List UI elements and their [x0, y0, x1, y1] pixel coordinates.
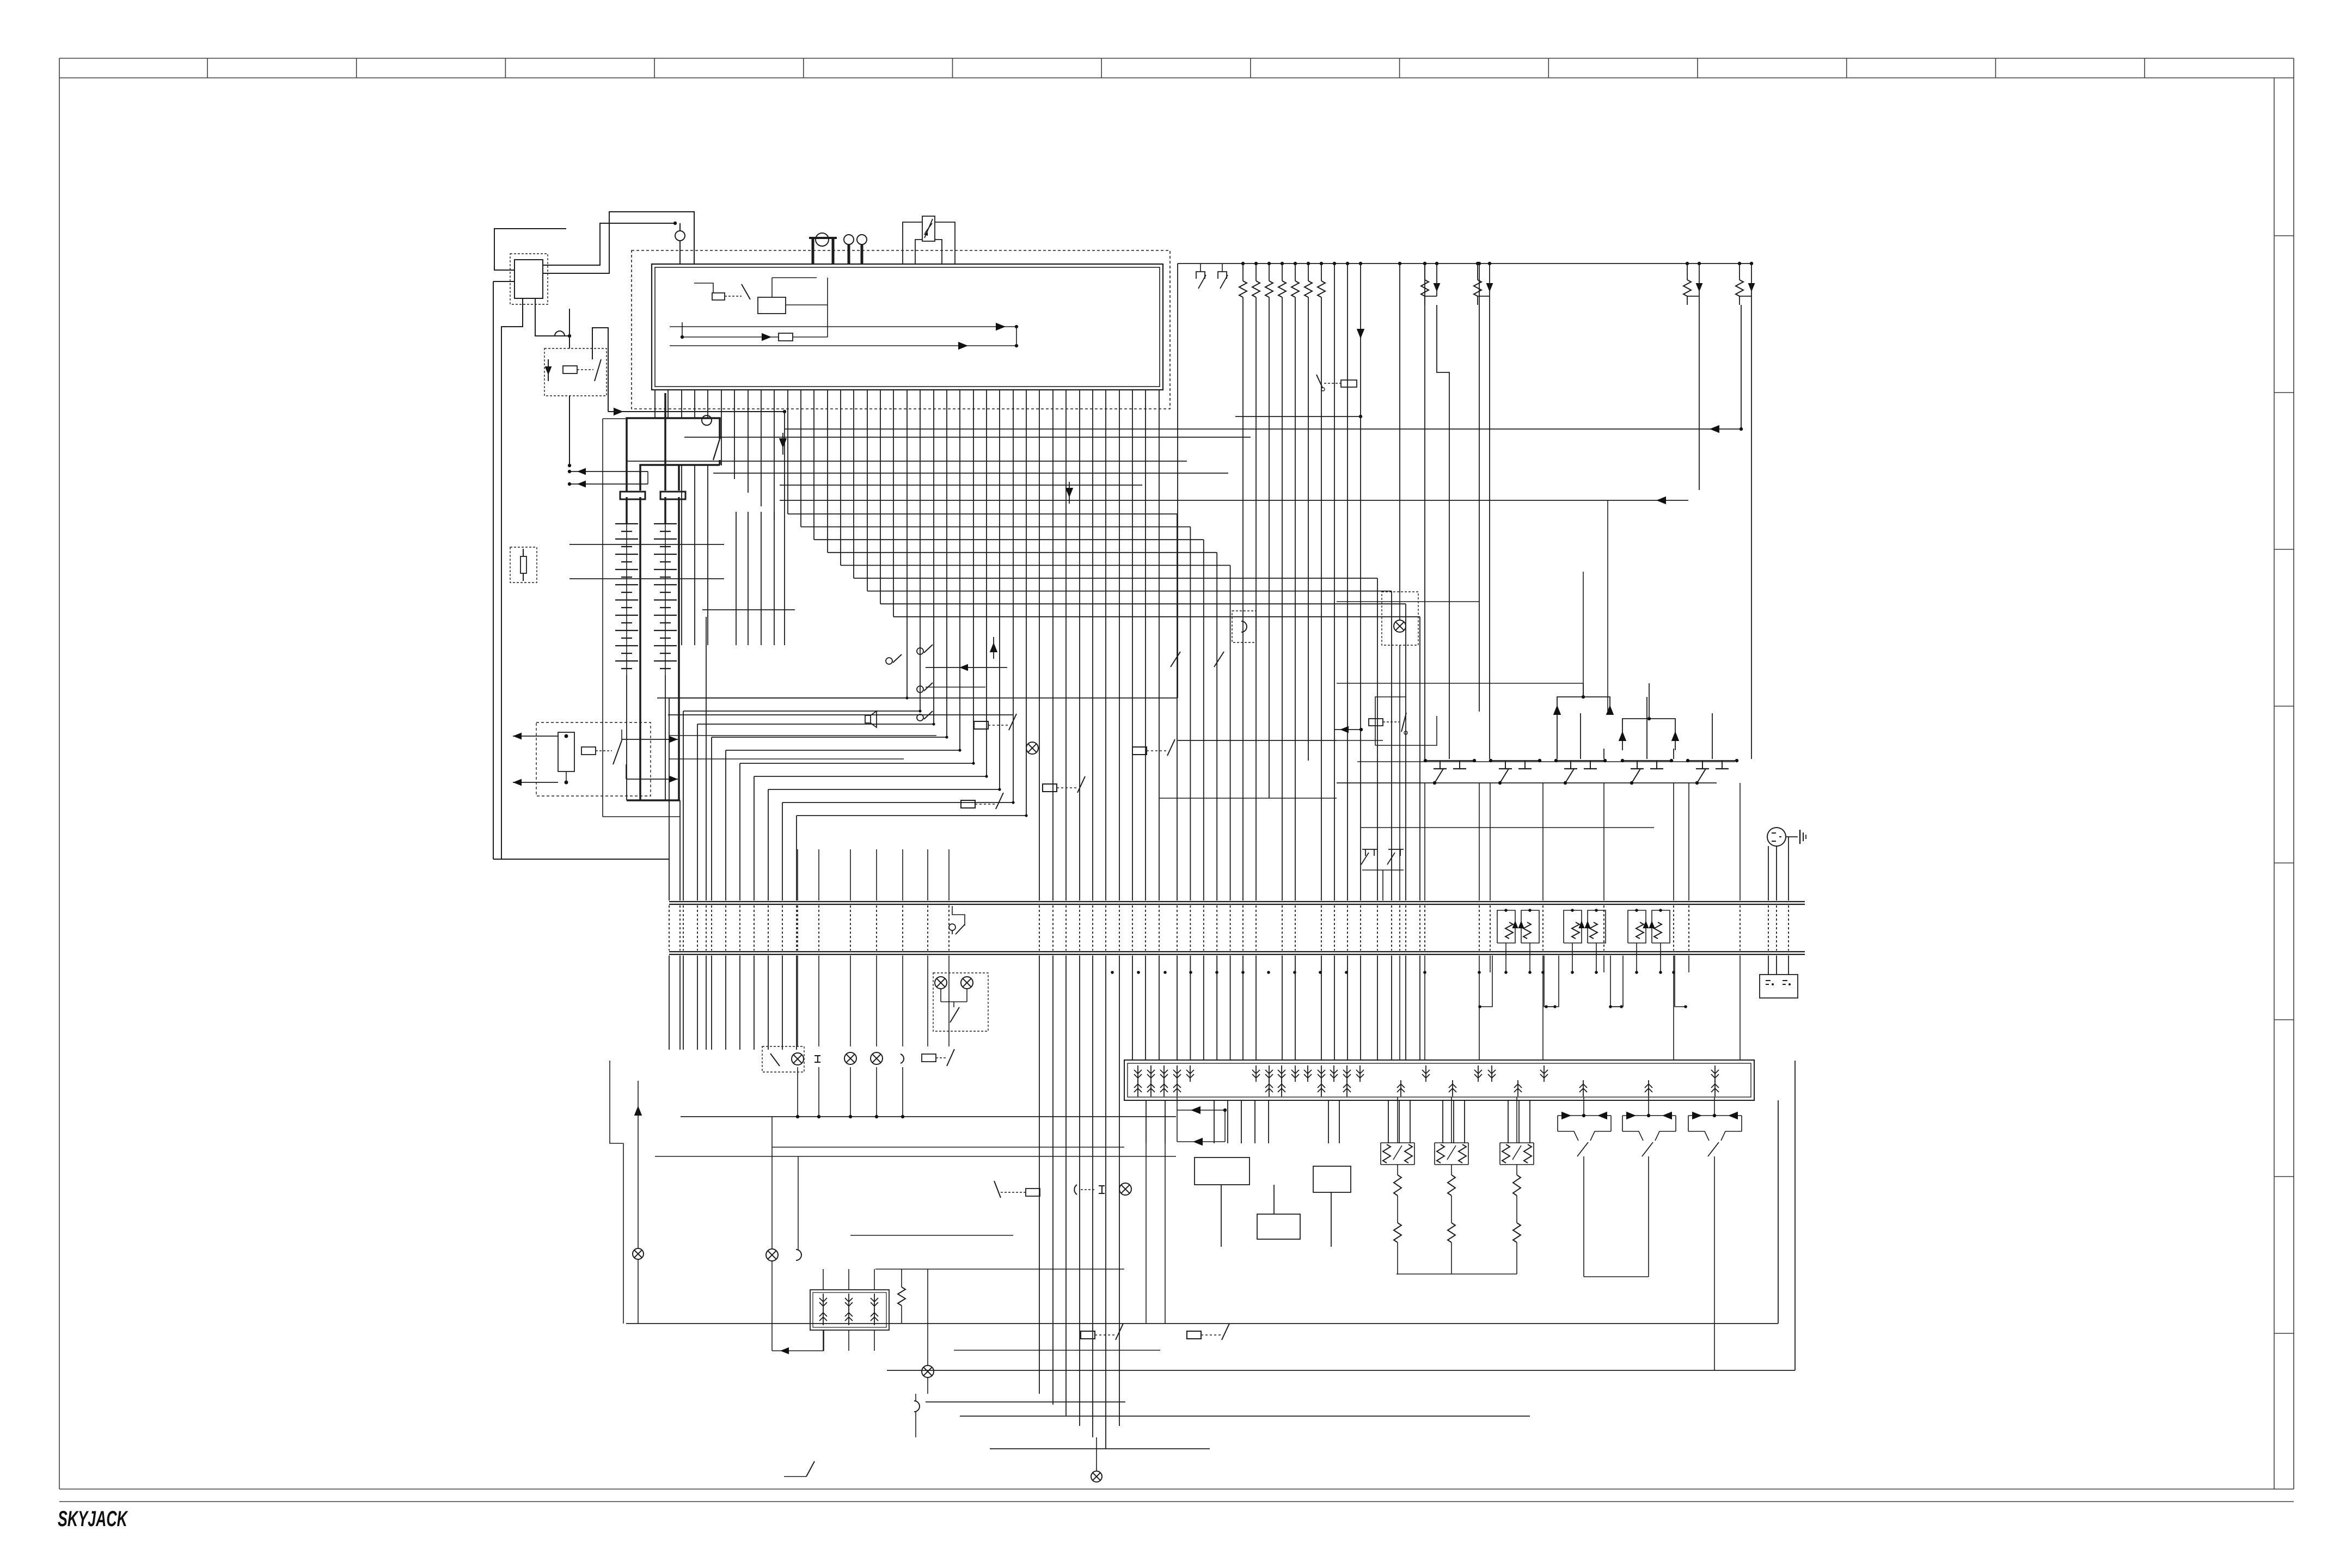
- pin chevron: [1173, 1080, 1181, 1097]
- lamp dashed box C1: [1382, 592, 1418, 645]
- pull switch blade: [924, 683, 933, 691]
- relay cluster mid-right: [1369, 719, 1383, 726]
- relay loop wire 2: [1375, 716, 1437, 745]
- diode: [1512, 921, 1518, 928]
- wire box1 down: [1221, 1185, 1222, 1247]
- wire y1262: [926, 687, 985, 688]
- transistor Q2: [1491, 760, 1540, 761]
- bottom left horizontal: [926, 1401, 1125, 1402]
- pin chevron: [1488, 1065, 1496, 1082]
- wire crossing rails (dashed): [754, 905, 755, 951]
- wire drop: [1339, 1100, 1340, 1143]
- wire crossing rails (dashed): [1424, 905, 1425, 951]
- wire drain: [1739, 783, 1741, 901]
- switch blade: [1214, 652, 1224, 667]
- wire C9: [1673, 749, 1674, 759]
- wire drop: [1388, 1100, 1389, 1143]
- cell feed from pin: [1583, 1097, 1584, 1116]
- wire drop: [1442, 1100, 1443, 1143]
- switch blade: [994, 1181, 1001, 1198]
- wire crossing rails (dashed): [1092, 905, 1093, 951]
- pin chevron: [1291, 1065, 1299, 1082]
- wire relay K1 to module: [543, 212, 694, 273]
- relay K4: [961, 793, 1003, 809]
- wire B5: [1308, 264, 1309, 281]
- wire y1105: [1337, 601, 1479, 602]
- chevron connector box small: [810, 1290, 889, 1330]
- drop pair wires: [1477, 264, 1478, 280]
- diode: [1728, 1112, 1738, 1119]
- drop pair wires: [1739, 264, 1740, 280]
- wire crossing rails (dashed): [1776, 905, 1777, 951]
- pin chevron: [1645, 1080, 1652, 1097]
- pin chevron: [1147, 1080, 1155, 1097]
- resistor lower2: [1394, 1223, 1401, 1242]
- resistor: [1523, 922, 1531, 939]
- pin chevron: [845, 1294, 853, 1310]
- long horizontal y788 with diode: [785, 428, 1741, 430]
- pin chevron: [1160, 1065, 1168, 1082]
- wire crossing rails (dashed): [782, 905, 783, 951]
- wire drain: [1490, 783, 1491, 901]
- relay K8: [1081, 1324, 1123, 1340]
- wire crossing rails (dashed): [1132, 905, 1133, 951]
- wire x2908: [1583, 572, 1584, 697]
- auxiliary plug P1: [1767, 828, 1786, 846]
- wire A8: [761, 390, 762, 506]
- wire drain: [1424, 783, 1425, 901]
- pin chevron: [1579, 1080, 1587, 1097]
- pin chevron: [1265, 1065, 1273, 1082]
- wire crossing rails (dashed): [1347, 905, 1348, 951]
- switch: [1642, 1142, 1653, 1156]
- left diode pair wires: [569, 471, 648, 472]
- wire left drop 2: [535, 298, 569, 336]
- thick drops second pair: [664, 393, 666, 491]
- controller to bus riser: [1177, 264, 1178, 409]
- drop to bus: [1529, 943, 1530, 972]
- wire drain: [1542, 783, 1543, 901]
- transistor Q5: [1688, 760, 1737, 761]
- fuse F1 dashed box: [510, 547, 537, 583]
- charger out arrows left: [513, 736, 558, 737]
- pin chevron: [1449, 1080, 1456, 1097]
- lamp mid: [1026, 742, 1038, 754]
- cell drains: [1583, 1171, 1584, 1277]
- suppressor frame: [1564, 910, 1582, 943]
- diode: [1692, 1112, 1702, 1119]
- wire C4: [1479, 264, 1480, 712]
- drop to bus: [1596, 943, 1597, 972]
- cell feed from pin: [1714, 1097, 1715, 1116]
- diode pair left below box: [1177, 1097, 1178, 1110]
- wire drop: [876, 955, 877, 1046]
- diode: [1489, 280, 1490, 296]
- relay K2 switch: [595, 359, 601, 381]
- wire hang battery side: [681, 465, 682, 645]
- wiper switch: [1447, 1146, 1456, 1160]
- wire A13 staircase: [827, 390, 828, 553]
- drop to bus: [1572, 943, 1573, 972]
- diode D1: [545, 366, 552, 375]
- wire crossing rails (dashed): [1295, 905, 1296, 951]
- wire crossing rails (dashed): [1052, 905, 1053, 951]
- relay coil: [922, 1054, 936, 1062]
- diode: [1751, 280, 1752, 296]
- wire y1520: [1361, 827, 1654, 828]
- relay K1 (top-left): [514, 260, 543, 298]
- connective horizontals mid right: [1160, 798, 1337, 799]
- drop pair wires: [1424, 264, 1425, 280]
- relay K3: [974, 714, 1016, 730]
- suppressor frame: [1521, 910, 1539, 943]
- wire hang battery side: [707, 465, 708, 645]
- diode: [1649, 921, 1655, 928]
- wire row to bus: [902, 1067, 903, 1117]
- fuse capsule 1: [620, 492, 645, 499]
- long drop x2736: [1489, 296, 1490, 759]
- wire A21 staircase: [933, 390, 934, 724]
- battery B1 cells: [626, 497, 628, 524]
- controller internal wire 1 with diode: [670, 326, 1016, 327]
- left hook wires: [610, 1061, 623, 1143]
- group B verticals with resistors: [1241, 262, 1245, 265]
- wire box2 down: [1331, 1192, 1332, 1247]
- pin chevron: [1147, 1065, 1155, 1082]
- relay K6: [1132, 739, 1175, 756]
- bridge feed: [1397, 1097, 1398, 1143]
- resistor: [1590, 922, 1597, 939]
- wire row to bus: [818, 1067, 819, 1117]
- wire crossing rails (dashed): [876, 905, 877, 951]
- long drop x3121: [1699, 296, 1700, 490]
- wire crossing rails (dashed): [927, 905, 928, 951]
- resistor: [1636, 922, 1644, 939]
- wire drop: [1328, 1100, 1329, 1143]
- wire crossing rails (dashed): [1177, 905, 1178, 951]
- controller module box U1: [652, 264, 1163, 390]
- border frame: [59, 58, 2294, 59]
- resistor: [1474, 280, 1481, 296]
- diode: [1643, 921, 1649, 928]
- wire B0: [1242, 264, 1244, 281]
- wire y891: [780, 485, 1142, 486]
- wire C10: [1712, 713, 1713, 759]
- horn symbol: [901, 1054, 904, 1063]
- wire C7: [1603, 749, 1604, 759]
- resistor lower: [1394, 1175, 1401, 1196]
- wire hang battery side: [694, 465, 695, 645]
- wire A19 staircase: [906, 390, 908, 698]
- wire A9: [774, 390, 775, 520]
- hour meter M1: [903, 222, 922, 264]
- right L wire outer: [1778, 1100, 1779, 1324]
- wire crossing rails (dashed): [1321, 905, 1322, 951]
- charger relay coil: [581, 747, 596, 755]
- wire drop: [1453, 1100, 1454, 1143]
- half-circle sensor: [914, 1401, 920, 1412]
- wire A25 staircase: [986, 390, 987, 776]
- controller module dashed enclosure: [632, 250, 1170, 409]
- resistor: [898, 1287, 905, 1306]
- lamp + horn mid-left: [766, 1249, 778, 1261]
- wire crossing rails (dashed): [1334, 905, 1335, 951]
- receptacle outlet box: [1760, 975, 1798, 998]
- wire row to bus: [876, 1067, 877, 1117]
- wire crossing rails (dashed): [1768, 905, 1769, 951]
- diode: [1699, 280, 1700, 296]
- pin chevron: [1186, 1065, 1194, 1082]
- resistor: [1505, 922, 1513, 939]
- wire drop: [1146, 1100, 1147, 1143]
- wire C1: [1399, 264, 1400, 592]
- pin chevron: [819, 1294, 827, 1310]
- wire drain: [1603, 783, 1604, 901]
- dashed lamp pod box: [933, 973, 988, 1031]
- diode: [1518, 921, 1524, 928]
- wire crossing rails (dashed): [1216, 905, 1217, 951]
- transistor Q1: [1425, 760, 1474, 761]
- wire y1255: [1337, 683, 1583, 684]
- wire A38 through: [1159, 390, 1160, 901]
- wire: [848, 1269, 849, 1290]
- wire row to bus: [797, 1067, 798, 1117]
- ground symbol: [1799, 830, 1800, 844]
- wire y2124: [655, 1156, 1176, 1157]
- resistor: [1572, 922, 1579, 939]
- wire drop: [1410, 1100, 1411, 1143]
- wire y1360: [1178, 740, 1383, 741]
- fuse F1: [520, 556, 526, 573]
- wire crossing rails (dashed): [1377, 905, 1378, 951]
- wire: [823, 1330, 824, 1351]
- battery negative thick drops: [639, 497, 641, 800]
- wire A37 through: [1145, 390, 1146, 901]
- wire A33 through: [1092, 390, 1093, 901]
- wire A15 staircase: [853, 390, 854, 578]
- wire A20 staircase: [920, 390, 921, 711]
- wire crossing rails (dashed): [1542, 905, 1543, 951]
- rail bus lower pair: [669, 951, 1805, 952]
- wire drop long: [1146, 1143, 1147, 1324]
- diode: [1436, 280, 1437, 296]
- rail bus upper pair: [669, 901, 1805, 902]
- wire y803: [684, 437, 1251, 438]
- charger switch: [613, 740, 622, 764]
- wire crossing rails (dashed): [818, 905, 819, 951]
- wire y1000 left: [569, 544, 724, 545]
- pin chevron: [871, 1309, 878, 1325]
- resistor R5: [1291, 281, 1299, 297]
- long drop from pair1: [1437, 305, 1449, 759]
- main harness connector box J1: [1124, 1060, 1754, 1100]
- resistor bridge R: [1405, 1144, 1412, 1163]
- wire drain: [1673, 783, 1674, 901]
- pin chevron: [1265, 1080, 1273, 1097]
- lamp feed diode bottom-left: [634, 1106, 642, 1116]
- resistor: [1421, 280, 1429, 296]
- pin chevron: [1304, 1065, 1312, 1082]
- left bottom horizontal: [493, 859, 669, 860]
- long verticals right x3198 x3217: [1741, 305, 1742, 431]
- wire B6: [1321, 264, 1322, 281]
- suppressor frame: [1652, 910, 1670, 943]
- bridge feed: [1451, 1097, 1452, 1143]
- wire y1226 with diode: [926, 667, 1007, 668]
- pin chevron: [871, 1294, 878, 1310]
- wire left feed: [706, 617, 707, 901]
- pin chevron: [819, 1309, 827, 1325]
- wire drop: [1464, 1100, 1465, 1143]
- wire crossing rails (dashed): [1405, 905, 1406, 951]
- wire A11 staircase: [800, 390, 801, 527]
- wire A30 through: [1052, 390, 1053, 901]
- wire K2 switch up-over: [592, 328, 608, 412]
- wire crossing rails (dashed): [739, 905, 740, 951]
- wire drop: [1268, 1100, 1269, 1143]
- diode: [1191, 1106, 1200, 1114]
- wire crossing rails (dashed): [797, 905, 798, 951]
- wire crossing rails (dashed): [1159, 905, 1160, 951]
- left long vertical: [493, 281, 494, 859]
- wire C2: [1424, 264, 1425, 759]
- pole circles: [844, 235, 854, 244]
- wire A6: [734, 390, 735, 479]
- wire A35 through: [1119, 390, 1120, 901]
- resistor: [1736, 280, 1743, 296]
- wire drain: [1479, 783, 1480, 901]
- diode: [1561, 1112, 1571, 1119]
- transistor Q4: [1622, 760, 1671, 761]
- charger module dashed box: [536, 722, 651, 796]
- wire A16 staircase: [867, 390, 868, 591]
- suppressor frame: [1497, 910, 1515, 943]
- wire A28 staircase: [1026, 390, 1027, 816]
- key switch blade: [955, 924, 965, 934]
- diode: [1584, 921, 1590, 928]
- wire crossing rails (dashed): [1419, 905, 1420, 951]
- wire A32 through: [1079, 390, 1080, 901]
- bottom-left bus y2051: [681, 1116, 1176, 1117]
- battery enclosure thin loop: [603, 418, 628, 419]
- wire B4: [1295, 264, 1296, 281]
- wire crossing rails (dashed): [679, 905, 681, 951]
- right zone column: [2274, 78, 2275, 1489]
- wire x2953: [1607, 500, 1608, 712]
- wire A27 staircase: [1013, 390, 1014, 803]
- wire A36 through: [1132, 390, 1133, 901]
- wire drop: [1529, 1100, 1530, 1143]
- wire row to bus: [850, 1067, 851, 1117]
- wire hang: [774, 512, 775, 645]
- pin chevron: [1278, 1065, 1285, 1082]
- charger resistor block: [558, 732, 574, 771]
- controller internal relay circuit: [758, 297, 786, 314]
- pin chevron: [1356, 1065, 1364, 1082]
- misc left lamps column: [633, 1248, 644, 1259]
- pin chevron: [1397, 1080, 1405, 1097]
- wire crossing rails (dashed): [683, 905, 684, 951]
- wire A4 to battery bus: [707, 390, 708, 418]
- wire A14 staircase: [840, 390, 841, 565]
- pin chevron: [1711, 1080, 1719, 1097]
- wire A18 staircase: [893, 390, 894, 617]
- diode D2 feed to battery bus: [614, 408, 623, 415]
- wire drop: [902, 955, 903, 1046]
- pin chevron: [1343, 1080, 1351, 1097]
- top distribution bus y484: [1178, 263, 1751, 264]
- wire A12 staircase: [813, 390, 814, 540]
- breaker pole pair with node: [816, 233, 829, 246]
- diode bridge 1: [1557, 697, 1610, 713]
- wire A29 through: [1039, 390, 1040, 901]
- pull switches column: [917, 648, 923, 654]
- drop to bus: [1505, 943, 1506, 972]
- battery bus node: [702, 415, 712, 425]
- pin chevron: [845, 1309, 853, 1325]
- pin chevron: [1134, 1080, 1142, 1097]
- riser continuation: [1177, 409, 1178, 698]
- wire crossing rails (dashed): [1391, 905, 1392, 951]
- diode: [1193, 1138, 1203, 1146]
- pin chevron: [1252, 1065, 1260, 1082]
- diode: [1578, 921, 1584, 928]
- wire crossing rails (dashed): [1490, 905, 1491, 951]
- battery switch blade: [713, 439, 720, 460]
- pin chevron: [1514, 1080, 1522, 1097]
- switch blade: [1401, 713, 1406, 732]
- wire y1063 left: [569, 578, 724, 579]
- resistor R2: [1252, 281, 1260, 297]
- wire battery neg: [679, 800, 681, 901]
- bottom horizontal y2661: [990, 1448, 1210, 1449]
- wire drop long: [1165, 1143, 1166, 1324]
- module outer legs below rail: [1610, 955, 1623, 1007]
- cap-H-lamp row: [1074, 1185, 1077, 1195]
- wire w diode: [1334, 729, 1361, 730]
- pin chevron: [1134, 1065, 1142, 1082]
- wire drop: [948, 955, 950, 1046]
- wire drain: [1399, 645, 1400, 901]
- transistor row bottom rail y1438: [1337, 782, 1717, 783]
- wire A34 through: [1105, 390, 1106, 901]
- diode: [1626, 1112, 1636, 1119]
- wire drop: [1508, 1100, 1509, 1143]
- sub-bus y765: [1235, 416, 1361, 417]
- resistor R3: [1265, 281, 1273, 297]
- wire left drop from K1: [501, 298, 523, 859]
- node circle (tilt sensor): [675, 231, 685, 241]
- wire y847: [626, 461, 1187, 462]
- fuse capsule 2: [660, 492, 685, 499]
- jumper arc: [555, 331, 565, 336]
- wire crossing rails (dashed): [1788, 905, 1789, 951]
- switch: [1577, 1142, 1588, 1156]
- wire crossing rails (dashed): [902, 905, 903, 951]
- wire crossing rails (dashed): [697, 905, 698, 951]
- wire crossing rails (dashed): [796, 905, 797, 951]
- wire crossing rails (dashed): [768, 905, 769, 951]
- wire y869: [713, 473, 1228, 474]
- resistor+diode drop pairs on bus: [1423, 262, 1426, 265]
- charger out arrows right: [622, 739, 678, 740]
- wire crossing rails (dashed): [725, 905, 726, 951]
- diode: [1662, 1112, 1672, 1119]
- wiper switch: [1512, 1146, 1521, 1160]
- key switch between rails: [949, 924, 955, 930]
- wire A10 staircase: [787, 390, 788, 514]
- cell feed from pin: [1648, 1097, 1649, 1116]
